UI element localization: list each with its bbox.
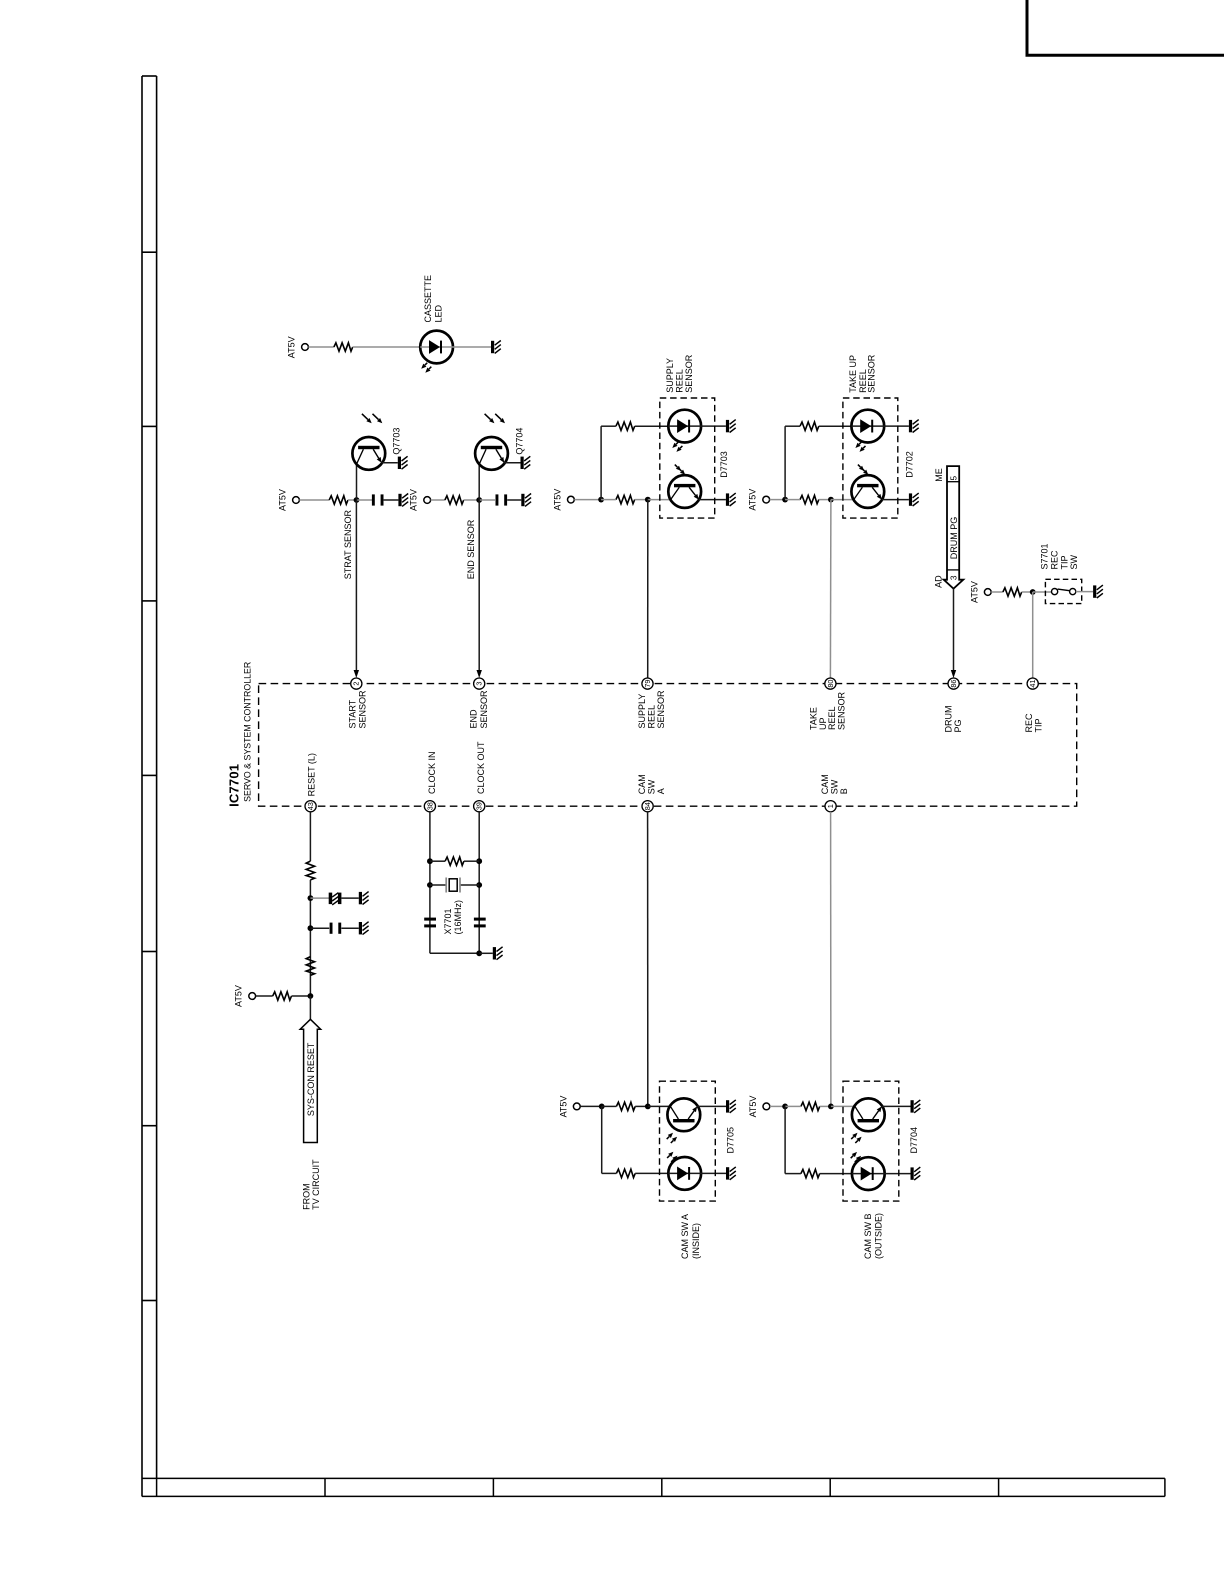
wire junction up to phototransistor Q7703 [356, 464, 358, 500]
LED (supply reel sensor emitter) D7703a [668, 410, 701, 452]
pin 39 CLOCK OUT [474, 741, 487, 812]
wire junction2 to phototransistor (cam B) [831, 1105, 855, 1107]
svg-text:SUPPLY: SUPPLY [637, 694, 647, 729]
wire capacitor1 to ground (reset) [341, 897, 358, 899]
svg-text:(OUTSIDE): (OUTSIDE) [873, 1213, 883, 1259]
svg-text:AT5V: AT5V [278, 489, 288, 511]
junction supply reel sensor output node [645, 497, 651, 503]
LED (take up reel sensor emitter) D7702a [851, 410, 884, 452]
junction cam A output node [645, 1104, 651, 1110]
capacitor (reset filter 2) [330, 923, 342, 934]
wire AT5V to resistor (cassette) [308, 346, 334, 348]
ground (rec tip) [1093, 585, 1103, 598]
svg-text:REEL: REEL [647, 705, 657, 729]
wire STRAT SENSOR net down to IC pin 2 [343, 500, 359, 678]
wire junction down to SYS-CON RESET arrow [309, 996, 311, 1019]
svg-text:SW: SW [1069, 554, 1079, 569]
ground (cam B phototransistor) [911, 1100, 921, 1113]
wire junction1 down branch (cam B LED) [784, 1106, 786, 1173]
wire LED to ground (take up) [884, 425, 909, 427]
svg-text:5: 5 [949, 475, 958, 480]
ground (Q7703 emitter) [398, 456, 408, 469]
svg-text:END SENSOR: END SENSOR [466, 519, 476, 579]
node AT5V (start sensor) [278, 489, 300, 511]
wire resistor to junction (rec tip) [1022, 591, 1033, 593]
wire oscillator bottom rail [430, 952, 479, 954]
ground (supply LED) [726, 420, 736, 433]
node AT5V (end sensor) [409, 489, 431, 511]
junction crystal left [427, 882, 433, 888]
svg-text:B: B [839, 788, 849, 794]
capacitor (clock in load) [424, 918, 436, 928]
svg-text:REEL: REEL [827, 706, 837, 730]
svg-text:TAKE: TAKE [808, 707, 818, 730]
wire switch to ground (rec tip) [1076, 591, 1093, 593]
wire junction2 to phototransistor (take up) [831, 499, 854, 501]
wire supply sensor output down to IC pin 79 [647, 500, 649, 678]
transistor Q7704 phototransistor [475, 414, 524, 470]
svg-text:CLOCK IN: CLOCK IN [427, 751, 437, 794]
node AT5V (rec tip) [969, 581, 991, 603]
ground (reset cap2) [359, 922, 369, 935]
ground (take up LED) [909, 420, 919, 433]
resistor (cam A phototransistor bias) [616, 1102, 635, 1110]
svg-text:CAM SW A: CAM SW A [680, 1214, 690, 1259]
transistor (take up reel sensor detector) D7702b [851, 465, 884, 508]
dashed box D7702 take up reel sensor [843, 354, 915, 518]
wire AT5V to resistor (end) [431, 499, 445, 501]
resistor (oscillator feedback) [445, 857, 464, 865]
svg-text:IC7701: IC7701 [227, 764, 242, 807]
junction clock out / resistor [476, 858, 482, 864]
resistor (take up phototransistor bias) [800, 495, 819, 503]
wire AT5V to junction1 (cam B) [770, 1105, 785, 1107]
resistor (supply phototransistor bias) [616, 495, 635, 503]
svg-text:CLOCK OUT: CLOCK OUT [476, 741, 486, 794]
svg-text:DRUM PG: DRUM PG [949, 517, 959, 560]
wire Q7704 emitter to ground [504, 462, 520, 464]
pin 41 REC TIP [1024, 678, 1044, 733]
wire LED to ground (cam B) [885, 1173, 911, 1175]
wire END SENSOR net down to IC pin 3 [466, 500, 482, 678]
wire reset chain mid [309, 880, 311, 996]
junction cam A branch [599, 1104, 605, 1110]
junction cam B branch [782, 1104, 788, 1110]
wire junction1 up branch (take up LED) [784, 426, 786, 499]
node AT5V (supply reel sensor) [552, 489, 574, 511]
resistor (end sensor bias) [445, 496, 464, 504]
wire resistor to junction (start) [348, 499, 357, 501]
svg-text:END: END [469, 709, 479, 729]
wire junction to switch (rec tip) [1033, 591, 1052, 593]
svg-text:38: 38 [425, 802, 434, 810]
connector ME drum PG flag [944, 466, 964, 589]
node AT5V (cassette LED supply) [287, 336, 309, 358]
node AT5V (take up reel sensor) [748, 489, 770, 511]
svg-text:84: 84 [643, 802, 652, 810]
resistor (reset lower) [306, 957, 314, 976]
pin 79 SUPPLY REEL SENSOR [637, 678, 666, 729]
svg-text:SUPPLY: SUPPLY [665, 358, 675, 393]
ground (start filter) [398, 494, 408, 507]
wire pin 38 down to oscillator [429, 812, 431, 954]
svg-text:START: START [348, 699, 358, 728]
wire to oscillator ground [479, 952, 493, 954]
ground (cassette LED) [491, 341, 501, 354]
svg-text:Q7703: Q7703 [391, 428, 401, 455]
resistor (reset AT5V series) [273, 992, 292, 1000]
ground (cam B LED) [911, 1167, 921, 1180]
wire junction1 up branch (supply LED) [600, 426, 602, 499]
crystal X7701 (16MHz) [430, 878, 479, 935]
svg-text:AT5V: AT5V [748, 489, 758, 511]
transistor (cam sw B detector) D7704b [851, 1098, 884, 1143]
wire junction1 to resistor (take up row) [785, 499, 800, 501]
svg-text:TIP: TIP [1059, 555, 1069, 569]
LED (cam sw A emitter) D7705a [667, 1152, 701, 1190]
resistor (rec tip pull up) [1003, 588, 1022, 596]
wire pin 39 down to oscillator [478, 812, 480, 954]
svg-text:(INSIDE): (INSIDE) [691, 1223, 701, 1259]
ground (Q7704 emitter) [521, 456, 531, 469]
ground (supply phototransistor) [726, 493, 736, 506]
svg-text:43: 43 [306, 802, 315, 810]
wire phototransistor emitter to ground (cam B) [882, 1105, 911, 1107]
wire phototransistor emitter to ground (supply) [699, 499, 726, 501]
ground (take up phototransistor) [909, 493, 919, 506]
junction oscillator ground node [476, 950, 482, 956]
wire capacitor to ground (end) [507, 499, 521, 501]
wire junction up to phototransistor Q7704 [478, 464, 480, 500]
wire Q7703 emitter to ground [382, 462, 398, 464]
wire junction1 to resistor (cam A top row) [602, 1105, 617, 1107]
svg-text:TV CIRCUIT: TV CIRCUIT [311, 1159, 321, 1210]
IC op U IC7701 SERVO & SYSTEM CONTROLLER dashed outline [227, 662, 1077, 807]
junction crystal right [476, 882, 482, 888]
wire junction1 down branch (cam A LED) [601, 1106, 603, 1173]
node AT5V (cam sw A) [558, 1096, 580, 1118]
wire junction to capacitor (start) [357, 499, 373, 501]
svg-text:STRAT SENSOR: STRAT SENSOR [343, 510, 353, 580]
dashed box D7704 cam sw B [843, 1081, 919, 1259]
wire junction2 to phototransistor (cam A) [648, 1105, 671, 1107]
svg-text:D7702: D7702 [905, 451, 915, 478]
svg-text:39: 39 [475, 802, 484, 810]
wire junction1 to resistor (cam B top row) [785, 1105, 801, 1107]
pin 3 END SENSOR [469, 678, 489, 729]
wire capacitor2 to ground (reset) [341, 927, 358, 929]
svg-text:REC: REC [1050, 550, 1060, 570]
pin 43 RESET (L) [305, 753, 317, 812]
wire LED to ground (cassette) [453, 346, 491, 348]
transistor Q7703 phototransistor [352, 414, 401, 470]
node AT5V (reset) [234, 985, 256, 1007]
node SYS-CON RESET input arrow from TV circuit [300, 1019, 320, 1142]
capacitor (reset, electrolytic hatched) [329, 893, 342, 905]
resistor (start sensor bias) [329, 496, 348, 504]
svg-text:3: 3 [475, 682, 484, 686]
svg-text:AD: AD [934, 575, 944, 588]
svg-text:LED: LED [434, 304, 444, 322]
svg-text:CASSETTE: CASSETTE [423, 275, 433, 323]
node AT5V (cam sw B) [748, 1096, 770, 1118]
ground (oscillator) [493, 947, 503, 960]
wire branch to LED anode (cam B) [785, 1173, 801, 1175]
svg-text:2: 2 [352, 682, 361, 686]
resistor (cassette LED series) [334, 343, 353, 351]
svg-text:SENSOR: SENSOR [867, 354, 877, 393]
svg-text:SENSOR: SENSOR [837, 691, 847, 730]
dashed box S7701 [1040, 543, 1082, 603]
LED (cam sw B emitter) D7704a [851, 1152, 885, 1190]
pin 34 CAM SW A [637, 774, 666, 812]
wire pin 1 down to cam sw B [830, 812, 832, 1107]
wire LED to ground (cam A) [701, 1172, 726, 1174]
border frame bottom strip [142, 1478, 1165, 1496]
wire junction to capacitor (end) [479, 499, 495, 501]
wire AT5V to junction1 (supply) [574, 499, 601, 501]
wire junction1 to resistor (supply row) [601, 499, 616, 501]
svg-text:DRUM: DRUM [944, 706, 954, 733]
wire rec tip down to IC pin 41 [1032, 592, 1034, 678]
svg-text:TAKE UP: TAKE UP [848, 355, 858, 393]
junction reset cap1 [308, 895, 314, 901]
svg-text:PG: PG [953, 719, 963, 732]
switch S7701 REC TIP SW [1052, 589, 1076, 595]
resistor (reset upper) [306, 861, 314, 880]
svg-text:SENSOR: SENSOR [358, 690, 368, 729]
junction reset bottom node [308, 993, 314, 999]
wire AT5V to resistor (rec tip) [991, 591, 1003, 593]
junction cam B output node [828, 1104, 834, 1110]
svg-text:D7704: D7704 [909, 1127, 919, 1154]
svg-text:SENSOR: SENSOR [684, 354, 694, 393]
junction take up reel sensor output node [828, 497, 834, 503]
pin 2 START SENSOR [348, 678, 368, 729]
pin 86 DRUM PG [944, 678, 964, 733]
wire branch to LED anode (supply) [601, 425, 616, 427]
svg-text:ME: ME [934, 468, 944, 482]
svg-text:AT5V: AT5V [969, 581, 979, 603]
wire branch to LED anode (cam A) [602, 1172, 617, 1174]
svg-text:86: 86 [949, 680, 958, 688]
label FROM TV CIRCUIT [301, 1159, 321, 1210]
LED CASSETTE LED [420, 275, 453, 373]
wire AT5V to resistor (reset) [256, 995, 273, 997]
wire pin 34 down to cam sw A [647, 812, 649, 1107]
svg-text:CAM SW B: CAM SW B [863, 1213, 873, 1259]
wire junction to capacitor1 (reset) [310, 897, 329, 899]
wire phototransistor emitter to ground (take up) [882, 499, 909, 501]
pin 80 TAKE UP REEL SENSOR [808, 678, 846, 730]
dashed box D7705 cam sw A [660, 1081, 736, 1259]
capacitor (start sensor filter) [372, 494, 384, 505]
wire branch to LED anode (take up) [785, 425, 800, 427]
wire pin 43 down to reset resistor [309, 812, 311, 861]
ground (cam A LED) [726, 1167, 736, 1180]
svg-text:D7703: D7703 [719, 451, 729, 478]
wire oscillator resistor leads [430, 860, 445, 862]
junction end sensor node [476, 497, 482, 503]
svg-text:SW: SW [646, 779, 656, 794]
resistor (cam B phototransistor bias) [801, 1102, 820, 1110]
svg-text:D7705: D7705 [725, 1127, 735, 1154]
svg-text:(16MHz): (16MHz) [453, 900, 463, 935]
svg-text:79: 79 [643, 680, 652, 688]
svg-text:X7701: X7701 [443, 908, 453, 934]
svg-text:SENSOR: SENSOR [656, 690, 666, 729]
dashed box D7703 supply reel sensor [660, 354, 729, 518]
pin 1 CAM SW B [820, 774, 849, 812]
ground (reset cap1) [359, 892, 369, 905]
wire junction2 to phototransistor (supply) [648, 499, 671, 501]
resistor (cam B LED series) [801, 1169, 820, 1177]
pin 38 CLOCK IN [424, 751, 437, 811]
svg-text:A: A [656, 788, 666, 794]
wire capacitor to ground (start) [384, 499, 399, 501]
resistor (supply LED series) [616, 422, 635, 430]
wire LED to ground (supply) [701, 425, 726, 427]
resistor (cam A LED series) [616, 1169, 635, 1177]
junction reset cap2 [308, 925, 314, 931]
wire junction to capacitor2 (reset) [310, 927, 329, 929]
junction take up branch [782, 497, 788, 503]
svg-text:S7701: S7701 [1040, 543, 1050, 569]
capacitor (clock out load) [474, 918, 486, 928]
capacitor (end sensor filter) [496, 494, 508, 505]
transistor (cam sw A detector) D7705b [667, 1098, 700, 1143]
junction clock in / resistor [427, 858, 433, 864]
svg-text:FROM: FROM [301, 1183, 311, 1210]
border frame left zone strip [142, 76, 157, 1497]
ground (cam A phototransistor) [726, 1100, 736, 1113]
wire take up sensor output down to IC pin 80 [829, 500, 832, 678]
svg-text:AT5V: AT5V [234, 985, 244, 1007]
wire AT5V to junction1 (cam A) [580, 1105, 602, 1107]
svg-text:SENSOR: SENSOR [479, 690, 489, 729]
svg-text:3: 3 [949, 575, 958, 580]
wire phototransistor emitter to ground (cam A) [697, 1105, 726, 1107]
junction rec tip node [1030, 589, 1036, 595]
resistor (take up LED series) [800, 422, 819, 430]
wire resistor to junction (end) [464, 499, 480, 501]
junction supply branch [598, 497, 604, 503]
transistor (supply reel sensor detector) D7703b [668, 465, 701, 508]
svg-text:AT5V: AT5V [409, 489, 419, 511]
svg-text:Q7704: Q7704 [515, 428, 525, 455]
wire AT5V to junction1 (take up) [770, 499, 786, 501]
svg-text:TIP: TIP [1034, 718, 1044, 732]
wire DRUM PG to IC pin 86 [951, 589, 956, 678]
svg-text:REC: REC [1024, 713, 1034, 733]
title block corner box top right [1026, 0, 1224, 55]
svg-text:SW: SW [829, 779, 839, 794]
wire AT5V to resistor (start) [299, 499, 329, 501]
svg-text:80: 80 [826, 680, 835, 688]
svg-text:SYS-CON RESET: SYS-CON RESET [306, 1042, 316, 1116]
ground (end filter) [521, 494, 531, 507]
svg-text:AT5V: AT5V [287, 336, 297, 358]
svg-text:1: 1 [826, 804, 835, 808]
svg-text:41: 41 [1028, 680, 1037, 688]
svg-text:AT5V: AT5V [558, 1096, 568, 1118]
wire resistor to junction (reset) [292, 995, 311, 997]
svg-text:RESET (L): RESET (L) [307, 753, 317, 796]
svg-text:SERVO & SYSTEM CONTROLLER: SERVO & SYSTEM CONTROLLER [242, 662, 252, 802]
wire resistor to LED (cassette) [353, 346, 421, 348]
svg-text:AT5V: AT5V [552, 489, 562, 511]
svg-text:AT5V: AT5V [748, 1096, 758, 1118]
junction start sensor node [354, 497, 360, 503]
